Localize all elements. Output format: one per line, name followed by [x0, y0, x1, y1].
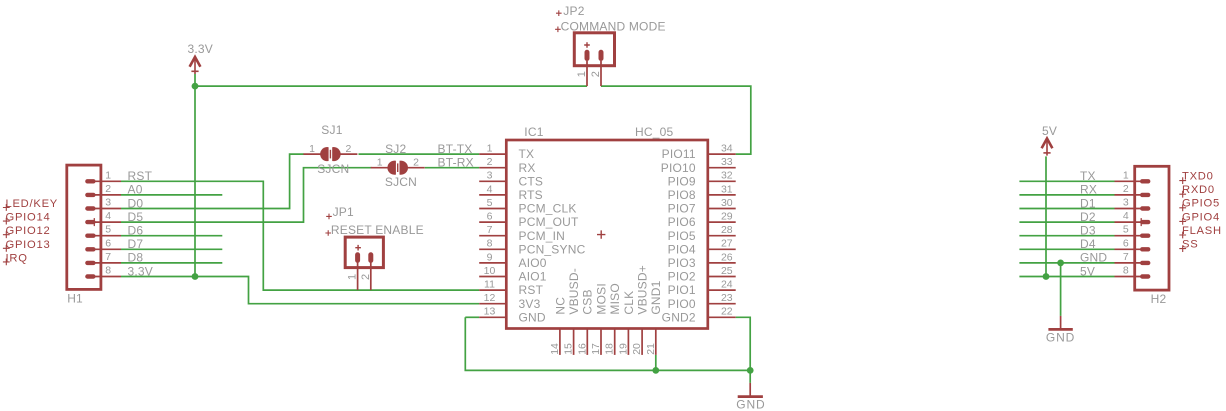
- SJ1 pin 1: [303, 153, 321, 155]
- H1 pin 1: [87, 179, 121, 183]
- svg-text:32: 32: [721, 170, 733, 182]
- svg-text:5: 5: [487, 197, 493, 209]
- svg-text:GND: GND: [1080, 251, 1107, 265]
- jumper JP1 body: [345, 237, 383, 268]
- svg-text:D8: D8: [128, 251, 144, 265]
- svg-text:2: 2: [487, 156, 493, 168]
- svg-text:MOSI: MOSI: [594, 283, 608, 314]
- svg-text:3V3: 3V3: [519, 297, 541, 311]
- svg-text:22: 22: [721, 306, 733, 318]
- wire net from JP2 pin 2 to IC1 pin 34: [601, 86, 751, 154]
- svg-text:19: 19: [617, 343, 629, 355]
- svg-text:8: 8: [1123, 265, 1129, 277]
- label IRQ: [3, 259, 10, 266]
- JP1 pin 2: [368, 255, 373, 290]
- svg-text:JP2: JP2: [563, 4, 584, 18]
- label SS: [1179, 245, 1186, 252]
- IC1 pin 24 (PIO1): [708, 289, 736, 291]
- svg-text:PIO0: PIO0: [668, 297, 696, 311]
- svg-text:RXD0: RXD0: [1182, 184, 1215, 196]
- IC1 pin 3 (CTS): [479, 180, 506, 182]
- wire GND net bottom run: [465, 317, 750, 370]
- label GPIO12: [3, 231, 10, 238]
- IC1 pin 22 (GND2): [708, 316, 736, 318]
- svg-text:7: 7: [105, 251, 111, 263]
- IC1 pin 26 (PIO3): [708, 262, 736, 264]
- H1 pin 7: [87, 261, 121, 265]
- svg-text:18: 18: [604, 343, 616, 355]
- wire D0 net: H1 pin 3 up to SJ1 pin 1: [121, 154, 304, 208]
- junction GND net at IC1 pin 21 drop: [652, 367, 659, 374]
- svg-text:3: 3: [105, 197, 111, 209]
- svg-text:D5: D5: [128, 210, 144, 224]
- svg-text:13: 13: [484, 306, 496, 318]
- IC1 pin 30 (PIO7): [708, 208, 736, 210]
- JP2 pin 2: [599, 52, 604, 86]
- svg-text:29: 29: [721, 211, 733, 223]
- IC1 pin 28 (PIO5): [708, 235, 736, 237]
- junction GND net at H2 pin 7 row: [1057, 260, 1064, 267]
- svg-text:SS: SS: [1182, 239, 1198, 251]
- svg-text:CTS: CTS: [519, 174, 544, 188]
- svg-text:SJCN: SJCN: [385, 175, 417, 189]
- H2 pin 6: [1115, 247, 1149, 251]
- JP1 value RESET ENABLE: [325, 230, 331, 236]
- svg-text:GPIO13: GPIO13: [6, 239, 51, 251]
- svg-text:5: 5: [1123, 224, 1129, 236]
- H1 pin 4: [87, 218, 121, 226]
- wire 3.3V net vertical from 3.3V supply to H1 pin 8 row: [194, 74, 196, 277]
- junction 3.3V net at H1 pin 8 row: [192, 273, 199, 280]
- svg-text:HC_05: HC_05: [635, 125, 673, 139]
- IC1 pin 12 (3V3): [479, 303, 506, 305]
- svg-text:6: 6: [105, 237, 111, 249]
- IC1 pin 13 (GND): [479, 316, 506, 318]
- svg-text:PIO3: PIO3: [668, 256, 696, 270]
- IC1 pin 1 (TX): [479, 153, 506, 155]
- svg-text:3.3V: 3.3V: [128, 264, 154, 278]
- svg-text:RTS: RTS: [519, 188, 543, 202]
- IC1 pin 23 (PIO0): [708, 303, 736, 305]
- label GPIO13: [3, 245, 10, 252]
- IC1 pin 27 (PIO4): [708, 248, 736, 250]
- wire BT-RX net: SJ2 pin 2 to IC1 pin 2: [425, 167, 479, 169]
- SJ2 pin 1: [371, 167, 389, 169]
- svg-text:PCM_IN: PCM_IN: [519, 229, 566, 243]
- svg-text:1: 1: [377, 157, 383, 169]
- IC1 pin 29 (PIO6): [708, 221, 736, 223]
- H1 pin 6: [87, 247, 121, 251]
- wire D7 net stub from H1 pin 6: [121, 248, 222, 250]
- svg-text:3: 3: [1123, 197, 1129, 209]
- power supply symbol 5V: [1042, 139, 1053, 156]
- svg-text:RESET ENABLE: RESET ENABLE: [331, 223, 424, 237]
- svg-text:GND: GND: [1046, 331, 1075, 345]
- svg-text:CSB: CSB: [581, 289, 595, 314]
- jumper JP2 body: [574, 33, 614, 66]
- svg-text:33: 33: [721, 156, 733, 168]
- svg-text:8: 8: [105, 265, 111, 277]
- wire D8 net stub from H1 pin 7: [121, 262, 222, 264]
- svg-text:24: 24: [721, 279, 733, 291]
- svg-text:AIO1: AIO1: [519, 270, 547, 284]
- IC1 pin 17 (MOSI): [600, 329, 602, 355]
- IC1 pin 15 (VBUSD-): [573, 329, 575, 355]
- svg-text:PIO5: PIO5: [668, 229, 696, 243]
- svg-text:2: 2: [1123, 183, 1129, 195]
- wire D1 net stub to H2 pin 3: [1019, 208, 1114, 210]
- IC1 pin 25 (PIO2): [708, 276, 736, 278]
- H2 pin 4: [1115, 218, 1149, 226]
- H2 pin 7: [1115, 261, 1149, 265]
- JP1 reference designator: [326, 214, 332, 220]
- svg-text:BT-RX: BT-RX: [438, 156, 474, 170]
- svg-text:10: 10: [484, 265, 496, 277]
- H2 pin 2: [1115, 193, 1149, 197]
- SJ2 pin 2: [407, 167, 425, 169]
- connector H2 (8-pin header) body: [1135, 166, 1169, 290]
- svg-text:26: 26: [721, 251, 733, 263]
- svg-text:23: 23: [721, 292, 733, 304]
- H2 pin 5: [1115, 233, 1149, 237]
- svg-text:GND2: GND2: [662, 310, 696, 324]
- IC1 pin 7 (PCM_IN): [479, 235, 506, 237]
- svg-text:D7: D7: [128, 237, 144, 251]
- svg-text:JP1: JP1: [333, 205, 354, 219]
- svg-text:PIO7: PIO7: [668, 202, 696, 216]
- svg-text:GPIO4: GPIO4: [1182, 211, 1220, 223]
- label GPIO4: [1179, 218, 1186, 225]
- svg-text:17: 17: [590, 343, 602, 355]
- JP2 value COMMAND MODE: [555, 27, 561, 33]
- IC1 pin 11 (RST): [479, 289, 506, 291]
- label TXD0: [1179, 177, 1186, 184]
- IC1 pin 9 (AIO0): [479, 262, 506, 264]
- svg-text:4: 4: [105, 210, 111, 222]
- wire 5V net stub to H2 pin 8: [1019, 276, 1114, 278]
- svg-text:AIO0: AIO0: [519, 256, 547, 270]
- svg-text:1: 1: [309, 143, 315, 155]
- svg-text:GPIO5: GPIO5: [1182, 198, 1220, 210]
- svg-text:20: 20: [631, 343, 643, 355]
- label LED/KEY: [3, 204, 10, 211]
- svg-text:LED/KEY: LED/KEY: [6, 198, 59, 210]
- svg-text:D1: D1: [1080, 196, 1096, 210]
- svg-text:27: 27: [721, 238, 733, 250]
- svg-text:3: 3: [487, 170, 493, 182]
- svg-text:4: 4: [1123, 210, 1129, 222]
- svg-text:3.3V: 3.3V: [188, 42, 214, 56]
- svg-text:GND1: GND1: [649, 280, 663, 314]
- H2 pin 1: [1115, 179, 1149, 183]
- wire GND net to ground symbol: [749, 370, 751, 383]
- svg-text:PIO8: PIO8: [668, 188, 696, 202]
- JP2 reference designator: [556, 10, 562, 16]
- svg-text:VBUSD+: VBUSD+: [636, 265, 650, 315]
- junction GND net at ground symbol: [747, 367, 754, 374]
- svg-text:PIO6: PIO6: [668, 215, 696, 229]
- svg-text:28: 28: [721, 224, 733, 236]
- svg-text:D4: D4: [1080, 237, 1096, 251]
- svg-text:TX: TX: [1080, 169, 1096, 183]
- svg-text:2: 2: [105, 183, 111, 195]
- svg-text:PCN_SYNC: PCN_SYNC: [519, 242, 586, 256]
- wire GND net vertical from H2 pin 7 row to ground symbol: [1060, 263, 1062, 316]
- junction 5V net at H2 pin 8 row: [1043, 273, 1050, 280]
- svg-text:4: 4: [487, 183, 493, 195]
- svg-text:12: 12: [484, 292, 496, 304]
- wire GND net from IC1 pin 22: [736, 317, 751, 370]
- IC1 pin 10 (AIO1): [479, 276, 506, 278]
- svg-text:7: 7: [1123, 251, 1129, 263]
- IC U1: IC1 HC_05 body: [506, 140, 708, 329]
- svg-text:15: 15: [563, 343, 575, 355]
- H1 pin 3: [87, 206, 121, 210]
- svg-text:SJCN: SJCN: [317, 162, 349, 176]
- svg-text:9: 9: [487, 251, 493, 263]
- svg-text:D0: D0: [128, 196, 144, 210]
- IC1 pin 34 (PIO11): [708, 153, 736, 155]
- wire 5V net vertical from 5V supply to H2 pin 8 row: [1045, 156, 1047, 276]
- svg-text:8: 8: [487, 238, 493, 250]
- svg-text:1: 1: [487, 143, 493, 155]
- svg-text:6: 6: [487, 211, 493, 223]
- svg-text:D6: D6: [128, 224, 144, 238]
- svg-text:RX: RX: [519, 161, 536, 175]
- IC1 pin 31 (PIO8): [708, 194, 736, 196]
- svg-text:5V: 5V: [1042, 124, 1057, 138]
- ground symbol (bottom, IC1 GND net): [738, 383, 763, 397]
- svg-text:VBUSD-: VBUSD-: [567, 268, 581, 315]
- svg-text:30: 30: [721, 197, 733, 209]
- wire 3.3V net: H1 pin 8 to IC1 pin 12: [121, 277, 479, 304]
- svg-text:GPIO14: GPIO14: [6, 212, 51, 224]
- IC1 pin 5 (PCM_CLK): [479, 208, 506, 210]
- IC1 pin 2 (RX): [479, 167, 506, 169]
- svg-text:PCM_OUT: PCM_OUT: [519, 215, 580, 229]
- svg-text:IC1: IC1: [524, 125, 543, 139]
- svg-text:PIO1: PIO1: [668, 283, 696, 297]
- svg-text:BT-TX: BT-TX: [438, 142, 473, 156]
- wire A0 net stub from H1 pin 2: [121, 194, 222, 196]
- solder jumper SJ2: [387, 161, 408, 175]
- svg-text:2: 2: [590, 71, 602, 77]
- svg-text:14: 14: [549, 343, 561, 355]
- svg-text:SJ2: SJ2: [385, 142, 406, 156]
- wire D3 net stub to H2 pin 5: [1019, 235, 1114, 237]
- IC1 pin 20 (VBUSD+): [641, 329, 643, 355]
- wire D4 net stub to H2 pin 6: [1019, 248, 1114, 250]
- svg-text:PIO9: PIO9: [668, 174, 696, 188]
- label FLASH: [1179, 232, 1186, 239]
- IC1 pin 14 (NC): [559, 329, 561, 355]
- svg-text:5: 5: [105, 224, 111, 236]
- H1 pin 2: [87, 193, 121, 197]
- IC1 pin 4 (RTS): [479, 194, 506, 196]
- svg-text:NC: NC: [553, 297, 567, 315]
- connector H1 (8-pin header) body: [67, 165, 101, 289]
- svg-text:D2: D2: [1080, 210, 1096, 224]
- svg-text:RST: RST: [128, 169, 153, 183]
- svg-text:H2: H2: [1151, 292, 1167, 306]
- wire GND net stub at IC1 pin 13: [465, 316, 479, 318]
- wire D6 net stub from H1 pin 5: [121, 235, 222, 237]
- JP1 pin 1: [355, 255, 360, 290]
- svg-text:25: 25: [721, 265, 733, 277]
- svg-text:GND: GND: [519, 310, 546, 324]
- svg-text:1: 1: [347, 274, 359, 280]
- svg-text:31: 31: [721, 183, 733, 195]
- svg-text:1: 1: [105, 169, 111, 181]
- wire TX net stub to H2 pin 1: [1019, 180, 1114, 182]
- SJ1 pin 2: [339, 153, 357, 155]
- IC1 pin 6 (PCM_OUT): [479, 221, 506, 223]
- svg-text:5V: 5V: [1080, 264, 1095, 278]
- svg-text:PIO11: PIO11: [662, 147, 696, 161]
- svg-text:TXD0: TXD0: [1182, 171, 1214, 183]
- svg-text:MISO: MISO: [608, 283, 622, 314]
- svg-text:TX: TX: [519, 147, 535, 161]
- svg-text:FLASH: FLASH: [1182, 225, 1222, 237]
- wire RST net: H1 pin1 to IC1 pin 11 (via JP1): [121, 181, 479, 290]
- IC1 origin cross: [597, 230, 605, 238]
- svg-text:21: 21: [645, 343, 657, 355]
- IC1 pin 18 (MISO): [614, 329, 616, 355]
- IC1 pin 32 (PIO9): [708, 180, 736, 182]
- solder jumper SJ1: [320, 147, 341, 161]
- svg-text:7: 7: [487, 224, 493, 236]
- svg-text:16: 16: [576, 343, 588, 355]
- svg-text:PIO4: PIO4: [668, 242, 696, 256]
- H2 pin 3: [1115, 206, 1149, 210]
- svg-text:RST: RST: [519, 283, 544, 297]
- H1 pin 5: [87, 233, 121, 237]
- svg-text:H1: H1: [67, 291, 83, 305]
- svg-text:PCM_CLK: PCM_CLK: [519, 202, 577, 216]
- IC1 pin 19 (CLK): [627, 329, 629, 355]
- wire D5 net: H1 pin 4 up to SJ2 pin 1: [121, 168, 372, 222]
- IC1 pin 8 (PCN_SYNC): [479, 248, 506, 250]
- label RXD0: [1179, 191, 1186, 198]
- wire GND net stub to H2 pin 7: [1019, 262, 1114, 264]
- svg-text:RX: RX: [1080, 183, 1097, 197]
- svg-text:IRQ: IRQ: [6, 252, 28, 264]
- svg-text:SJ1: SJ1: [321, 123, 342, 137]
- svg-text:2: 2: [360, 274, 372, 280]
- svg-text:34: 34: [721, 143, 733, 155]
- svg-text:PIO2: PIO2: [668, 270, 696, 284]
- svg-text:11: 11: [484, 279, 495, 291]
- svg-text:6: 6: [1123, 237, 1129, 249]
- wire RX net stub to H2 pin 2: [1019, 194, 1114, 196]
- IC1 pin 16 (CSB): [586, 329, 588, 355]
- svg-text:A0: A0: [128, 183, 143, 197]
- junction 3.3V rail at supply: [192, 83, 199, 90]
- ground symbol (right, H2 GND net): [1048, 316, 1072, 330]
- svg-text:2: 2: [345, 143, 351, 155]
- svg-text:GPIO12: GPIO12: [6, 225, 51, 237]
- JP2 pin 1: [585, 52, 590, 86]
- svg-text:PIO10: PIO10: [661, 161, 696, 175]
- wire GND net drop from IC1 pin 21: [655, 355, 657, 371]
- H2 pin 8: [1115, 274, 1149, 278]
- svg-text:1: 1: [1123, 169, 1129, 181]
- svg-text:D3: D3: [1080, 224, 1096, 238]
- IC1 pin 21 (GND1): [655, 329, 657, 355]
- H1 pin 8: [87, 274, 121, 278]
- svg-text:2: 2: [413, 157, 419, 169]
- svg-text:1: 1: [576, 71, 588, 77]
- label GPIO14: [3, 218, 10, 225]
- power supply symbol 3.3V: [190, 57, 201, 74]
- wire D2 net stub to H2 pin 4: [1019, 221, 1114, 223]
- label GPIO5: [1179, 204, 1186, 211]
- wire BT-TX net: SJ1 pin 2 to IC1 pin 1: [359, 153, 480, 155]
- IC1 pin 33 (PIO10): [708, 167, 736, 169]
- svg-text:COMMAND MODE: COMMAND MODE: [561, 20, 666, 34]
- svg-text:CLK: CLK: [622, 291, 636, 315]
- svg-text:GND: GND: [736, 398, 765, 411]
- wire 3.3V net rail to JP2 pin 1: [195, 85, 587, 87]
